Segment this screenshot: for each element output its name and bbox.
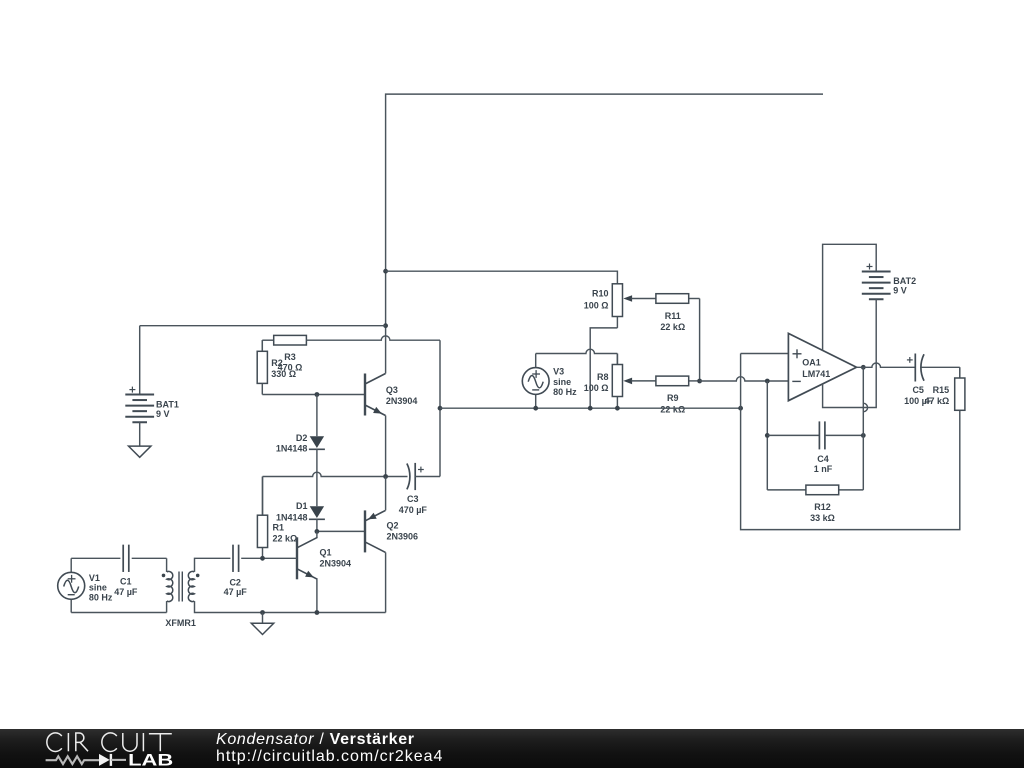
junction node Q1 collector: [315, 529, 320, 534]
wire C4 right lead: [825, 434, 863, 436]
svg-text:sine: sine: [89, 582, 107, 592]
wire top rail from Q3 collector node to open end: [386, 94, 823, 271]
wire Q2 collector lead: [385, 552, 387, 612]
wire C4 left lead: [767, 434, 819, 436]
wire op-amp output with hop: [857, 363, 916, 367]
svg-text:D2: D2: [296, 433, 308, 443]
label R12 value: [810, 502, 835, 523]
wire Q1 emitter lead: [316, 579, 318, 612]
label D1: [276, 501, 308, 522]
svg-text:R2: R2: [271, 358, 283, 368]
junction node Q1 emitter: [315, 610, 320, 615]
label V3 value: [553, 367, 577, 397]
junction node op-amp output: [861, 365, 866, 370]
wire Q3 collector vertical: [385, 271, 387, 373]
junction node Q3/Q2 emitters: [383, 474, 388, 479]
svg-text:22 kΩ: 22 kΩ: [273, 534, 298, 544]
wiper arrow R8: [623, 378, 632, 385]
resistor R9: [631, 376, 699, 386]
svg-text:V1: V1: [89, 573, 100, 583]
svg-text:2N3904: 2N3904: [386, 396, 418, 406]
wire R3 left column: [261, 340, 263, 351]
svg-text:22 kΩ: 22 kΩ: [660, 322, 685, 332]
wire R9 to op-amp inverting input with hop: [700, 377, 789, 381]
label XFMR1: [165, 618, 196, 628]
svg-text:sine: sine: [553, 377, 571, 387]
svg-text:470 µF: 470 µF: [399, 505, 428, 515]
junction node R10 feed: [383, 269, 388, 274]
label OA1: [802, 358, 830, 379]
plus sign BAT2: [867, 264, 873, 270]
svg-text:330 Ω: 330 Ω: [271, 369, 296, 379]
junction node C4 right: [861, 433, 866, 438]
transistor Q1: [297, 537, 318, 579]
svg-text:47 µF: 47 µF: [114, 587, 138, 597]
label R15 value: [924, 385, 949, 406]
wire noninverting input column: [741, 354, 789, 409]
wire R10 bottom dogleg: [590, 328, 617, 408]
wire Q1 collector lead: [316, 531, 318, 537]
junction node ground tap: [260, 610, 265, 615]
junction node BAT1 rail: [383, 323, 388, 328]
diode D1: [309, 506, 325, 531]
svg-text:33 kΩ: 33 kΩ: [810, 513, 835, 523]
footer title and url: [216, 732, 443, 765]
wire ground stub: [262, 613, 264, 624]
CircuitLab logo: [0, 723, 200, 768]
ground below BAT1: [129, 446, 151, 457]
capacitor C1: [123, 545, 129, 572]
label R8 value: [584, 372, 609, 393]
resistor R3: [262, 335, 306, 345]
svg-text:D1: D1: [296, 501, 308, 511]
transistor Q2: [365, 510, 386, 552]
voltage source V1: [58, 558, 85, 612]
svg-text:R12: R12: [814, 502, 831, 512]
wiper arrow R10: [623, 295, 632, 302]
junction node R1 bottom: [260, 556, 265, 561]
svg-text:R10: R10: [592, 288, 609, 298]
svg-text:Q2: Q2: [387, 521, 399, 531]
wire C2 to Q1 base: [241, 557, 297, 559]
label Q3: [386, 385, 418, 406]
wire feedback column: [766, 381, 768, 490]
junction node feedback tap: [765, 379, 770, 384]
op-amp OA1: [788, 333, 856, 400]
svg-text:Q3: Q3: [386, 385, 398, 395]
svg-text:C1: C1: [120, 577, 132, 587]
label C3 value: [399, 494, 428, 515]
resistor R2: [257, 340, 267, 394]
wire R3 to C3 column: [439, 340, 441, 476]
resistor R10: [612, 284, 622, 328]
svg-text:22 kΩ: 22 kΩ: [660, 404, 685, 414]
capacitor C2: [233, 545, 239, 572]
svg-text:80 Hz: 80 Hz: [89, 592, 113, 602]
svg-text:R15: R15: [933, 385, 950, 395]
junction node V3 bottom: [533, 406, 538, 411]
wire C1 to XFMR1: [132, 558, 167, 572]
svg-text:1 nF: 1 nF: [814, 464, 833, 474]
resistor R11: [631, 294, 699, 304]
wire XFMR1 secondary bottom rail: [195, 601, 386, 612]
wire R2 bottom to Q3 base: [262, 394, 365, 396]
svg-text:100 Ω: 100 Ω: [584, 301, 609, 311]
svg-text:C3: C3: [407, 494, 419, 504]
wire D1 to Q2 base: [317, 530, 365, 532]
footer bar: [0, 729, 1024, 768]
junction node D2 top: [315, 392, 320, 397]
wire BAT1 positive rail: [140, 325, 386, 327]
svg-text:XFMR1: XFMR1: [165, 618, 196, 628]
label R9 value: [660, 393, 685, 414]
wire BAT1 bottom lead: [139, 422, 141, 446]
resistor R12: [767, 485, 863, 495]
ground near XFMR1: [251, 623, 273, 634]
label R3 value: [278, 352, 303, 373]
svg-text:100 Ω: 100 Ω: [584, 383, 609, 393]
svg-text:1N4148: 1N4148: [276, 443, 308, 453]
resistor R8: [612, 354, 622, 409]
diode D2: [309, 395, 325, 507]
wire BAT1 top lead: [139, 326, 141, 395]
svg-text:R1: R1: [273, 522, 285, 532]
label R10 value: [584, 288, 609, 310]
svg-text:LAB: LAB: [128, 752, 173, 768]
svg-text:BAT2: BAT2: [893, 276, 916, 286]
label R11 value: [660, 311, 685, 332]
wire R12 to output with hop: [863, 367, 867, 490]
voltage source V3: [522, 354, 549, 409]
svg-text:C4: C4: [817, 454, 829, 464]
resistor R1: [257, 477, 267, 559]
label C5 value: [904, 385, 933, 406]
wire V+ supply to BAT2: [823, 244, 877, 350]
label Q2: [387, 521, 419, 542]
wire V1 bottom rail: [71, 601, 166, 612]
label BAT1 value: [156, 400, 179, 419]
plus sign BAT1: [129, 387, 135, 393]
wire to R10 column: [386, 271, 618, 284]
wire R3 right lead with hop: [306, 336, 440, 340]
junction node R10 leg: [588, 406, 593, 411]
svg-text:R3: R3: [284, 352, 296, 362]
wire rail to R15 bottom loop: [741, 408, 960, 529]
capacitor C5: [915, 354, 960, 382]
label R1 value: [273, 522, 298, 543]
svg-text:2N3904: 2N3904: [320, 559, 352, 569]
wire BAT2 bottom to V- supply: [823, 299, 877, 407]
svg-text:9 V: 9 V: [156, 409, 170, 419]
wire V1 top to C1: [71, 557, 120, 559]
junction node rail tap: [438, 406, 443, 411]
svg-text:1N4148: 1N4148: [276, 512, 308, 522]
wire V3 top to R8 with hop: [536, 349, 618, 364]
label C2 value: [224, 578, 248, 597]
transistor Q3: [365, 374, 386, 416]
label C1 value: [114, 577, 138, 598]
svg-text:C5: C5: [912, 385, 924, 395]
label Q1: [320, 548, 352, 569]
label R2 value: [271, 358, 296, 379]
svg-text:R9: R9: [667, 393, 679, 403]
battery BAT2: [862, 272, 891, 300]
svg-text:LM741: LM741: [802, 369, 830, 379]
wire reference rail: [440, 407, 741, 409]
wire C5 to R15: [959, 367, 961, 378]
label V1 value: [89, 573, 113, 603]
wire Q3 emitter lead: [385, 416, 387, 477]
wire R11 to R9 node: [699, 299, 701, 382]
label D2: [276, 433, 308, 453]
svg-text:47 kΩ: 47 kΩ: [924, 396, 949, 406]
wire R1 top to C3 with hop: [263, 472, 408, 515]
wire XFMR1 secondary top: [195, 558, 231, 572]
junction node R8 bottom: [615, 406, 620, 411]
transformer XFMR1: [162, 571, 200, 601]
label C4 value: [814, 454, 833, 474]
junction node noninverting tie: [738, 406, 743, 411]
plus sign C5: [907, 357, 913, 363]
svg-text:R11: R11: [665, 311, 681, 321]
battery BAT1: [125, 395, 154, 423]
wire Q2 emitter lead: [385, 477, 387, 511]
svg-text:47 µF: 47 µF: [224, 587, 248, 597]
svg-text:OA1: OA1: [802, 358, 821, 368]
svg-text:Q1: Q1: [320, 548, 332, 558]
capacitor C4: [819, 421, 825, 449]
label BAT2 value: [893, 276, 916, 296]
junction node R9-R11: [697, 379, 702, 384]
capacitor C3: [407, 463, 440, 490]
junction node C4 left: [765, 433, 770, 438]
resistor R15: [955, 367, 965, 410]
plus sign C3: [418, 467, 424, 473]
svg-text:V3: V3: [553, 367, 564, 377]
svg-text:9 V: 9 V: [893, 285, 907, 295]
svg-text:80 Hz: 80 Hz: [553, 387, 577, 397]
svg-text:2N3906: 2N3906: [387, 531, 419, 541]
svg-text:R8: R8: [597, 372, 609, 382]
